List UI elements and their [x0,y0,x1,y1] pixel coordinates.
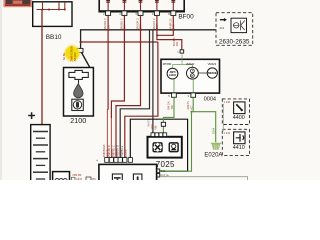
svg-text:E020A: E020A [204,153,222,159]
svg-text:4410: 4410 [233,145,245,151]
svg-text:2100: 2100 [70,116,86,125]
BF00 pin 2 wire [123,0,125,10]
wire black to 7025 pin [152,30,154,133]
pin boxes bottom [174,79,193,93]
junction box BB10 [33,2,72,41]
wire BB10 to battery + [41,10,43,125]
component G000 (bottom small box) [53,172,83,183]
svg-text:2630-2635: 2630-2635 [219,38,250,45]
connector pin 1 of 7020 [105,158,109,163]
svg-text:VM420: VM420 [186,62,195,66]
svg-text:BRAKE: BRAKE [208,72,217,75]
wire diagonal into 2100 [82,53,90,68]
svg-text:0004: 0004 [204,96,216,102]
ground E020A [204,127,222,158]
wire black branch down [120,30,149,158]
svg-text:213: 213 [220,26,225,30]
component 0004 instrument cluster [161,54,220,102]
highlighted wire label (yellow) [62,44,80,62]
pin box pump 2100 [76,48,83,52]
wire red branch down [125,42,158,158]
wire stub [58,2,60,10]
svg-text:T40: T40 [170,105,174,110]
svg-text:4400: 4400 [233,115,245,121]
7025 pin row [151,133,155,137]
svg-text:P: P [192,74,194,78]
svg-text:1 440: 1 440 [224,100,231,104]
svg-text:15M BK: 15M BK [72,173,81,177]
BF00 pin 1 wire [107,0,109,10]
green wire 0004 pin1 to 7025 [163,97,174,137]
connector pin 2 of 7020 [109,158,113,163]
washer pump 2100 [64,68,94,126]
wire BF00 pin3 down [116,15,141,157]
svg-text:BB10: BB10 [46,34,62,41]
connector row into 7020 lower unit [86,144,132,181]
green wire 0004 pin2 to ground E020A [192,97,216,142]
svg-text:MT080: MT080 [163,62,172,66]
svg-text:T40: T40 [160,169,165,173]
svg-text:E004: E004 [212,127,216,134]
pin E021A on 7020 [155,173,160,177]
BF00 pin 3 wire [140,0,142,10]
wire stub [64,2,66,10]
wire BF00 pin4 to 0004 [157,15,182,49]
lower connection unit [99,164,157,182]
svg-text:456: 456 [154,125,157,130]
BF00 pin 4 wire [156,0,158,10]
connector pin 3 of 7020 [114,158,118,163]
BF00 pins [103,0,176,31]
connector pin 6 of 7020 [128,158,132,163]
unit 7020 outline [130,119,187,171]
svg-text:A2100: A2100 [73,52,77,61]
BF00 pin 5 wire [172,0,174,10]
wire E021A ground run [160,177,248,181]
relay unit 7025 [148,137,182,169]
svg-text:LOCK: LOCK [169,74,176,77]
wire stub [42,2,44,10]
svg-text:7025: 7025 [156,160,175,169]
wire red bus [81,41,158,43]
battery BB00 [28,112,50,181]
off sheet link 4410 [222,129,249,155]
svg-text:1 442: 1 442 [224,131,231,135]
svg-text:BF00: BF00 [178,13,194,20]
wire BF00 pin2 down [111,15,124,118]
svg-text:477: 477 [189,105,193,110]
ECU BF00 (bottom edge only) [98,0,194,20]
wire black from pump 2100 up and across [81,30,216,49]
battery supply BB00 (highlighted red) [3,0,35,7]
wire BF00 pin5 to 0004 [157,15,173,35]
wire link 440 to 442 [222,104,224,131]
svg-text:15C: 15C [92,178,97,180]
svg-text:9A GY: 9A GY [146,119,150,127]
wire BF00 pin1 down [106,15,109,110]
svg-text:E3588: E3588 [123,149,127,157]
off sheet link 2630-2635 [216,13,253,46]
green wire branch to T40 pin [160,112,192,172]
off sheet link 4400 [222,99,249,125]
pin T40 on 7020 [155,169,160,173]
svg-text:8A BE: 8A BE [62,53,66,60]
svg-text:253: 253 [175,41,179,46]
svg-text:CR-D: CR-D [76,178,82,180]
wire bus inside BB10 [37,9,66,11]
svg-text:VM423: VM423 [208,62,217,66]
connector pin 5 of 7020 [123,158,127,163]
pin box 0004 top [180,50,184,53]
connector pin 4 of 7020 [118,158,122,163]
junction dots [42,9,44,11]
